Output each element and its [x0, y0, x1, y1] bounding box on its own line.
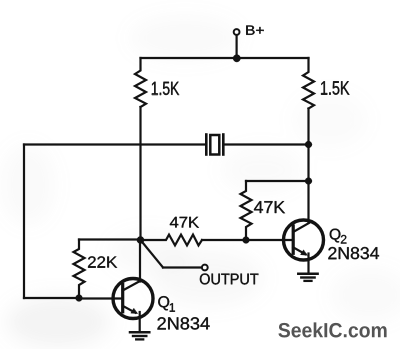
label 47K (R3) — [254, 201, 285, 213]
junction: 47K feedback top on right branch — [305, 178, 312, 185]
wire: 47K feedback top — [246, 180, 309, 182]
watermark SeekIC.com — [278, 322, 386, 337]
wire: B+ terminal to rail — [236, 35, 238, 58]
label 1.5K (R1) — [152, 82, 179, 95]
label Q1 - Q — [158, 296, 169, 310]
label Q2 - Q — [330, 229, 341, 243]
crystal Y1 — [205, 135, 208, 155]
wire: top supply rail — [141, 57, 309, 59]
resistor R3 47K (Q2 collector-base) — [241, 181, 252, 240]
junction: Q2 base node — [243, 237, 250, 244]
label OUTPUT — [200, 273, 258, 284]
label Q2 - sub 2 — [341, 235, 346, 243]
label B+ — [246, 26, 263, 35]
wire: output tap diagonal — [141, 240, 164, 268]
wire: Q2 base — [246, 239, 293, 241]
wire: far-left feedback vertical — [23, 145, 25, 299]
label 22K (R5) — [88, 256, 117, 267]
label 47K (R4) — [170, 217, 199, 228]
wire: crystal left lead / feedback to left rail — [24, 143, 206, 145]
junction: central node (Q1 collector) — [137, 236, 144, 243]
wire: R4 to Q2 base node — [202, 239, 246, 241]
wire: Q2 emitter vertical — [307, 254, 309, 274]
junction: Q1 base node — [76, 295, 83, 302]
wire: output horizontal — [163, 266, 202, 268]
resistor R5 22K — [74, 240, 85, 299]
ground (Q2) — [298, 273, 317, 276]
junction: B+ on rail — [233, 55, 240, 62]
label Q1 - sub 1 — [170, 303, 175, 311]
resistor R4 47K (cross-coupling, horizontal) — [141, 235, 203, 246]
wire: 22K top — [79, 238, 141, 240]
resistor R1 1.5K (left) — [135, 58, 146, 107]
resistor R2 1.5K (right) — [303, 58, 314, 109]
wire: Q1 collector vertical — [139, 240, 141, 282]
wire: crystal right lead — [223, 143, 308, 145]
B+ terminal — [234, 29, 240, 35]
wire: bottom-left horizontal to Q1 base node — [24, 297, 79, 299]
wire: right branch (R2 bottom down to Q2 collector) — [307, 109, 309, 223]
transistor Q1 2N834 — [113, 279, 153, 319]
label 2N834 (Q1) — [158, 317, 210, 329]
label 1.5K (R2) — [321, 81, 349, 94]
label 2N834 (Q2) — [328, 247, 379, 259]
ground (Q1) — [130, 331, 149, 334]
OUTPUT terminal — [202, 265, 208, 271]
transistor Q2 2N834 — [284, 220, 324, 260]
wire: Q1 base — [79, 297, 123, 299]
wire: left branch (R1 bottom to central node, crosses crystal wire) — [139, 107, 141, 240]
junction: crystal to right branch — [305, 141, 312, 148]
wire: Q1 emitter vertical — [139, 312, 141, 332]
